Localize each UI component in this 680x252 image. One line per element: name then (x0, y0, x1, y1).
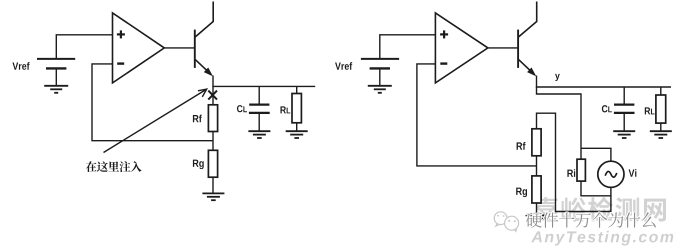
resistor RL (left) (292, 94, 301, 123)
wire rail to CL (left) (258, 86, 260, 104)
label Rg (right) (516, 188, 527, 198)
wire node y to Ri top (537, 87, 582, 159)
battery Vref short plate (right) (370, 67, 390, 69)
wire battery to op-amp V+ (right) (380, 35, 436, 59)
wire node to Rf through break (left) (212, 86, 214, 104)
wire RL to ground (left) (296, 123, 298, 131)
battery Vref long plate (left) (37, 58, 75, 60)
wire CL to ground (left) (258, 113, 260, 131)
ground below Rg (right) (526, 215, 548, 222)
feedback wire U1 minus to Rf/Rg node (92, 64, 213, 141)
wire battery to op-amp V+ (56, 35, 112, 59)
wire Rg to ground (right) (536, 203, 538, 215)
op-amp U2 (435, 13, 488, 83)
transistor Q1 base bar (194, 30, 196, 68)
transistor Q2 emitter with arrow (519, 60, 532, 72)
label y (output node) (555, 74, 560, 81)
battery Vref short plate (left) (46, 67, 66, 69)
annotation text 在这里注入 (86, 161, 142, 172)
wire emitter to output node (left) (212, 76, 214, 87)
label Ri (567, 169, 575, 177)
label RL (right) (645, 107, 651, 114)
resistor Rg (right) (532, 176, 541, 203)
label Rf (left) (193, 115, 202, 123)
transistor Q1 emitter with arrow (195, 60, 208, 72)
label Vref (left) (12, 62, 29, 70)
resistor Ri (577, 159, 585, 181)
wire rail to RL (right) (660, 87, 662, 95)
wire RL to ground (right) (660, 123, 662, 131)
wire CL to ground (right) (623, 113, 625, 131)
wire rail to RL (left) (296, 86, 298, 93)
ground below Vref battery (right) (368, 86, 392, 93)
wire Rg to ground (left) (212, 177, 214, 193)
wire U2 output to Q2 base (488, 47, 518, 49)
wire output rail (left) (212, 85, 315, 87)
capacitor CL bottom plate (left) (249, 112, 270, 114)
ground below RL (right) (650, 131, 672, 138)
resistor Rf (left) (208, 105, 217, 132)
ground below Rg (left) (202, 193, 224, 200)
watermark text AnyTesting.com (531, 231, 673, 246)
capacitor CL top plate (right) (614, 103, 634, 105)
op-amp U1 minus sign (117, 62, 124, 64)
wire U1 output to Q1 base (164, 47, 195, 49)
transistor Q1 collector (195, 2, 213, 37)
wire battery to ground (left) (55, 68, 57, 85)
capacitor CL bottom plate (right) (614, 112, 635, 114)
source Vi sine symbol (605, 171, 617, 177)
wire rail to CL (right) (623, 87, 625, 105)
ground below CL (right) (613, 131, 635, 138)
ground below RL (left) (286, 131, 308, 138)
label CL (left) (237, 105, 243, 112)
source Vi circle (598, 161, 624, 187)
op-amp U2 plus sign (440, 30, 448, 38)
wire battery to ground (right) (379, 68, 381, 85)
watermark logo (chat bubbles) (494, 212, 518, 233)
label Rg (left) (193, 160, 204, 170)
label RL (left) (280, 106, 286, 113)
label Vi (629, 169, 637, 177)
ground below CL (left) (248, 131, 270, 138)
wire Ri bottom to Vi bottom (581, 181, 611, 196)
wire Rf to Rg (right) (536, 156, 538, 176)
wire Ri top to Vi top (581, 148, 611, 161)
watermark text 嘉峪检测网 (534, 197, 666, 222)
breaking point X mark (208, 91, 217, 100)
wire output rail (right) (536, 86, 671, 88)
resistor Rg (left) (208, 150, 217, 177)
op-amp U2 minus sign (440, 62, 447, 64)
battery Vref long plate (right) (361, 58, 399, 60)
transistor Q2 collector (519, 2, 537, 37)
wire emitter to node y (536, 76, 538, 88)
watermark text 硬件十万个为什么 (526, 212, 656, 227)
resistor RL (right) (656, 95, 666, 123)
label CL (right) (602, 105, 608, 112)
ground below Vref battery (left) (44, 86, 68, 93)
capacitor CL top plate (left) (249, 103, 269, 105)
transistor Q2 base bar (517, 30, 519, 68)
annotation arrow to injection point (104, 89, 207, 152)
wire Rf to Rg (left) (212, 132, 214, 151)
label Vref (right) (335, 62, 352, 70)
wire Vi bottom to Rf top (series path) (537, 113, 611, 211)
feedback wire U2 minus to Rf/Rg node (417, 64, 537, 166)
label Rf (right) (517, 142, 526, 150)
resistor Rf (right) (532, 129, 541, 156)
op-amp U1 plus sign (117, 30, 125, 38)
op-amp U1 (113, 13, 165, 83)
